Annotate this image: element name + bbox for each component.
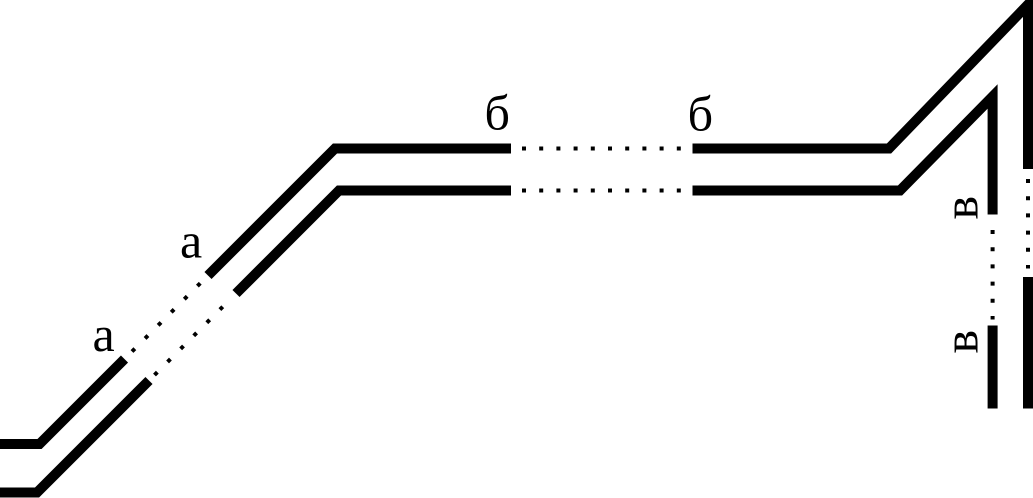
wire: lower line, vertical solid lower segment	[988, 326, 998, 409]
svg-text:б: б	[688, 85, 713, 141]
svg-text:б: б	[485, 84, 510, 140]
wire: upper line, vertical solid lower segment	[1023, 277, 1033, 409]
wire: lower line, vertical dotted break (в)	[991, 230, 995, 320]
wire: lower line, dotted break (a) along diagonal	[155, 306, 224, 375]
wire: lower line, horizontal after break + right ascent + vertical down	[693, 97, 993, 215]
wire: lower line, horizontal dotted break (б)	[522, 189, 681, 193]
wire: upper line, horizontal after break + right ascent + vertical down	[693, 5, 1029, 170]
wire: upper line, diagonal above break + horizontal solid to break б	[208, 149, 511, 276]
svg-text:а: а	[180, 213, 202, 269]
wire: upper line, dotted break (a) along diagonal	[132, 283, 201, 352]
wire: lower line, left stub + lower diagonal solid segment	[0, 381, 149, 493]
svg-text:в: в	[933, 196, 989, 220]
wire: upper line, horizontal dotted break (б)	[522, 147, 681, 151]
wire: lower line, diagonal above break + horizontal solid to break б	[236, 191, 511, 294]
wire: upper line, vertical dotted break (в)	[1026, 179, 1030, 269]
svg-text:а: а	[93, 306, 115, 362]
wire: upper line, left stub + lower diagonal solid segment	[0, 359, 125, 444]
svg-text:в: в	[933, 330, 989, 354]
